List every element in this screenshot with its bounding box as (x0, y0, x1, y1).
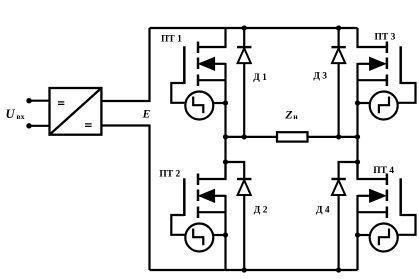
wire ПТ2 source drop (224, 195, 226, 270)
node Д3 bottom (336, 134, 341, 139)
svg-text:U: U (6, 107, 16, 121)
svg-text:ПТ 2: ПТ 2 (159, 169, 180, 179)
node top rail / Д1 (242, 25, 247, 30)
wire right leg midpoint (356, 63, 358, 179)
diode Д1 (237, 47, 251, 63)
diode Д2 (237, 179, 251, 195)
wire Д1 branch (243, 28, 245, 137)
wire left leg midpoint (224, 63, 226, 179)
transistor ПТ2 (171, 160, 228, 252)
svg-text:н: н (293, 112, 298, 121)
svg-text:Д 3: Д 3 (313, 71, 327, 81)
wire input top (29, 100, 50, 102)
transistor ПТ1 (171, 28, 228, 120)
wire E- riser (101, 126, 149, 271)
svg-text:Д 2: Д 2 (254, 206, 268, 216)
node load right (355, 134, 360, 139)
svg-text:Д 1: Д 1 (253, 73, 267, 83)
node Д2 tap (223, 159, 228, 164)
node top rail / Д3 (336, 25, 341, 30)
svg-text:Z: Z (284, 107, 293, 121)
transistor ПТ4 (355, 160, 416, 252)
converter U1 (DC/DC box) (50, 88, 102, 135)
wire Д2 branch (226, 162, 245, 270)
diode Д4 (331, 179, 345, 195)
wire ПТ4 source drop (356, 195, 358, 270)
node: input terminal + (26, 98, 31, 103)
wire input bottom (29, 125, 50, 127)
node bottom rail / Д2 (242, 267, 247, 272)
wire Д3 branch (338, 28, 340, 137)
wire top rail (150, 27, 358, 29)
node load left (223, 134, 228, 139)
svg-text:Д 4: Д 4 (316, 206, 330, 216)
wire bottom rail (150, 269, 358, 271)
node bottom rail / Д4 (336, 267, 341, 272)
node Д4 tap (355, 159, 360, 164)
wire load (226, 136, 358, 138)
svg-text:ПТ 4: ПТ 4 (373, 166, 394, 176)
transistor ПТ3 (355, 28, 416, 120)
svg-text:ПТ 1: ПТ 1 (161, 35, 182, 45)
svg-text:вх: вх (16, 112, 24, 121)
node Д1 bottom (242, 134, 247, 139)
wire E+ riser (101, 28, 149, 101)
node: input terminal - (26, 123, 31, 128)
wire Д4 branch (339, 162, 358, 270)
svg-text:ПТ 3: ПТ 3 (375, 32, 396, 42)
svg-text:E: E (142, 108, 151, 120)
diode Д3 (331, 47, 345, 63)
resistor Z_н (load) (277, 132, 308, 141)
